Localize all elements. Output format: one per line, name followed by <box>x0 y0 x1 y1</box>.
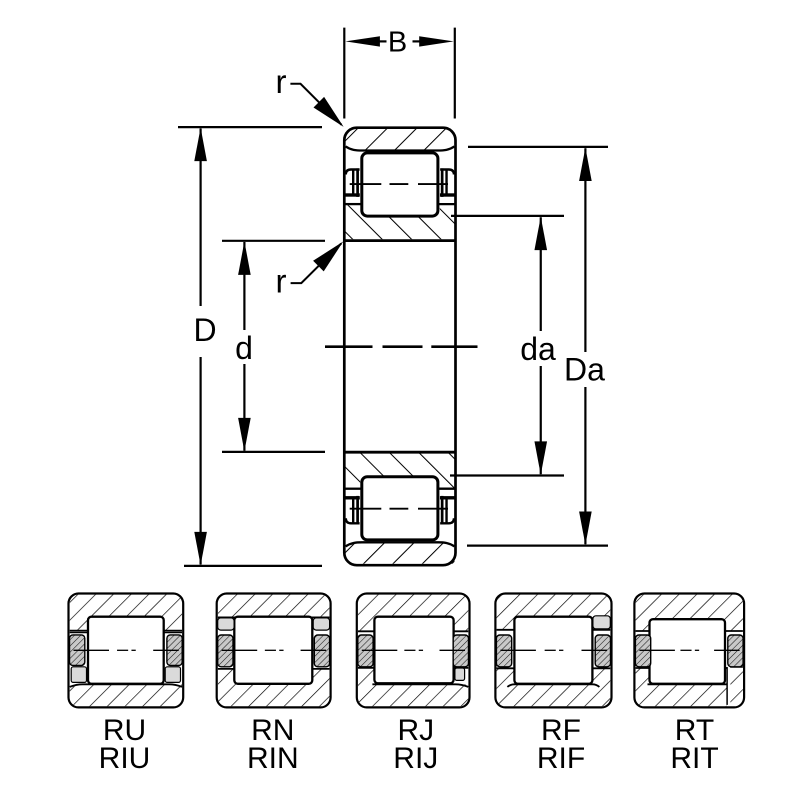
svg-text:RIN: RIN <box>247 742 299 775</box>
svg-text:RIJ: RIJ <box>393 742 438 775</box>
svg-text:RIF: RIF <box>537 742 585 775</box>
svg-text:r: r <box>276 262 287 299</box>
svg-text:d: d <box>235 330 253 366</box>
svg-text:Da: Da <box>564 352 605 388</box>
svg-text:RIT: RIT <box>670 742 718 775</box>
svg-text:RIU: RIU <box>99 742 151 775</box>
svg-text:B: B <box>388 26 407 58</box>
svg-text:r: r <box>276 63 287 100</box>
svg-text:D: D <box>193 312 216 348</box>
svg-text:da: da <box>520 331 556 367</box>
